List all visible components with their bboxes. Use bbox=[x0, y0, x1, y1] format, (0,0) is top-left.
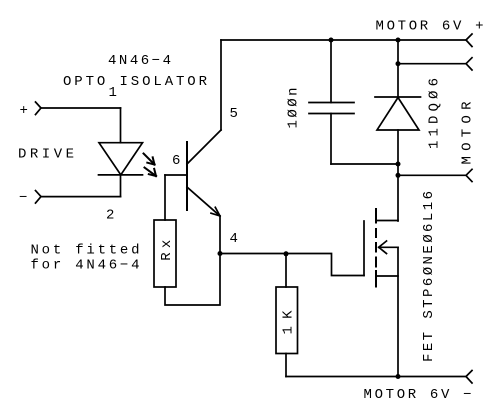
svg-text:1: 1 bbox=[109, 85, 117, 101]
svg-text:1ØØn: 1ØØn bbox=[285, 88, 301, 129]
svg-text:11DQØ6: 11DQØ6 bbox=[427, 78, 443, 149]
svg-text:DRIVE: DRIVE bbox=[18, 147, 74, 163]
svg-text:Rx: Rx bbox=[159, 240, 175, 261]
svg-text:1K: 1K bbox=[281, 310, 297, 335]
svg-text:6: 6 bbox=[172, 153, 180, 169]
svg-text:MOTOR 6V +: MOTOR 6V + bbox=[376, 19, 484, 35]
svg-text:5: 5 bbox=[230, 106, 238, 122]
svg-text:4N46−4: 4N46−4 bbox=[108, 53, 171, 69]
svg-text:4: 4 bbox=[230, 231, 238, 247]
svg-text:MOTOR 6V −: MOTOR 6V − bbox=[364, 387, 472, 403]
svg-text:+: + bbox=[20, 103, 28, 119]
svg-text:for 4N46−4: for 4N46−4 bbox=[31, 258, 140, 274]
svg-text:2: 2 bbox=[106, 208, 114, 224]
svg-text:FET STP6ØNEØ6L16: FET STP6ØNEØ6L16 bbox=[421, 191, 437, 362]
svg-text:OPTO ISOLATOR: OPTO ISOLATOR bbox=[63, 74, 208, 90]
svg-text:−: − bbox=[19, 190, 27, 206]
svg-text:MOTOR: MOTOR bbox=[460, 101, 476, 165]
svg-text:Not fitted: Not fitted bbox=[31, 243, 140, 259]
